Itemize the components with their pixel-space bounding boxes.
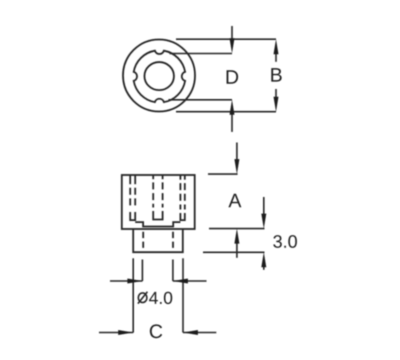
extension line notch-bottom (D) — [169, 99, 233, 101]
label C — [150, 324, 162, 338]
dim D arrow shaft bottom — [231, 113, 233, 132]
extension line outer-top — [176, 38, 276, 40]
bore bottom step — [135, 222, 180, 226]
label 3.0 — [273, 235, 297, 248]
dim 3.0 arrowhead top — [261, 214, 266, 229]
A top extension — [208, 173, 238, 175]
label B — [271, 68, 281, 81]
right rib pair solid tops — [179, 175, 181, 180]
dim B arrowhead bottom — [274, 97, 279, 112]
body rectangle — [122, 175, 195, 229]
extension line hole right — [172, 260, 174, 282]
extension line outer-bottom — [176, 111, 276, 113]
3.0 top shaft — [263, 197, 265, 215]
middle rib pair hidden dashes — [152, 182, 154, 207]
dim B arrow shaft bottom — [275, 89, 277, 99]
extension line stem left edge — [132, 258, 134, 332]
left rib U bottom — [130, 212, 135, 220]
dim B arrowhead top — [274, 39, 279, 54]
dim dia4.0 line right — [173, 280, 207, 282]
extension line hole left — [141, 260, 143, 282]
dim D arrowhead bottom — [230, 100, 235, 115]
dim C line right — [183, 332, 216, 334]
top view outer circle — [123, 40, 195, 112]
A bottom shaft — [236, 242, 238, 258]
dim A arrowhead top — [234, 159, 239, 174]
A top arrow shaft — [236, 143, 238, 162]
left rib pair hidden dashes — [129, 188, 131, 209]
FRONT VIEW — [122, 175, 195, 252]
dim C line left — [99, 332, 133, 334]
label dia 4.0 — [138, 292, 148, 304]
top view inner circle — [144, 62, 174, 90]
shared extension A-bottom / 3.0-top — [209, 228, 265, 230]
RIGHT DIMENSIONS — [203, 143, 265, 270]
label A — [228, 194, 241, 207]
stem hidden hole dashed lines — [142, 232, 144, 248]
dim C arrowhead left — [118, 330, 133, 335]
dim B arrow shaft top — [275, 53, 277, 62]
label D — [227, 70, 239, 83]
dim dia4.0 arrowhead right — [173, 279, 188, 284]
top view middle circle with 4 notches — [134, 51, 185, 102]
dim 3.0 arrowhead bottom — [261, 252, 266, 267]
dim C arrowhead right — [183, 330, 198, 335]
right rib pair hidden dashes — [179, 183, 181, 209]
right rib U bottom — [180, 213, 184, 220]
extension line stem right edge — [182, 258, 184, 332]
extension line notch-top (D) — [170, 53, 233, 55]
dim D arrowhead top — [230, 38, 235, 53]
stem — [133, 229, 183, 252]
dim dia4.0 arrowhead left — [127, 279, 142, 284]
left rib pair solid tops — [129, 175, 131, 184]
3.0 bottom extension — [203, 251, 265, 253]
3.0 bottom shaft — [263, 266, 265, 270]
dim dia4.0 line left — [110, 280, 142, 282]
middle rib pair solid tops — [152, 175, 154, 179]
dim D arrow shaft top — [231, 26, 233, 41]
BOTTOM DIMENSIONS — [99, 258, 216, 332]
middle rib U bottom — [153, 211, 162, 220]
dim A arrowhead bottom — [234, 229, 239, 244]
